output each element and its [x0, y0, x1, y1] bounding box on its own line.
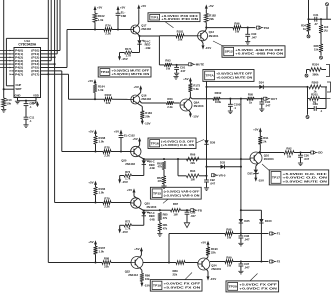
svg-text:1.0k: 1.0k [98, 88, 104, 92]
svg-text:R93: R93 [165, 59, 171, 63]
svg-text:MUTE: MUTE [196, 63, 205, 67]
svg-text:R72: R72 [125, 220, 130, 224]
svg-text:2N4401: 2N4401 [211, 267, 221, 271]
svg-text:10k: 10k [178, 38, 183, 42]
svg-text:+5V: +5V [133, 85, 138, 89]
svg-text:P4(0): P4(0) [15, 49, 23, 53]
svg-text:R365: R365 [312, 81, 319, 85]
svg-text:+5.0(VDC) MUTE ON: +5.0(VDC) MUTE ON [111, 72, 149, 76]
svg-text:+0.0VDC FX ON: +0.0VDC FX ON [239, 286, 277, 290]
svg-text:P4(7): P4(7) [15, 72, 23, 76]
svg-text:P4(5): P4(5) [15, 66, 23, 70]
svg-text:F2: F2 [277, 260, 281, 264]
svg-text:D36: D36 [210, 141, 216, 145]
svg-text:1W: 1W [235, 30, 240, 34]
svg-text:+5V: +5V [141, 4, 146, 8]
svg-text:-15V: -15V [205, 46, 211, 50]
svg-text:TP16: TP16 [151, 141, 160, 145]
svg-text:-14B: -14B [145, 46, 151, 50]
svg-text:F1: F1 [277, 232, 281, 236]
svg-text:2.2k: 2.2k [104, 204, 110, 208]
svg-text:2N4403: 2N4403 [147, 205, 157, 209]
svg-text:R94: R94 [190, 169, 196, 173]
svg-text:CHP: CHP [16, 83, 22, 87]
svg-text:TP7A: TP7A [206, 74, 215, 78]
svg-text:P4(3): P4(3) [15, 59, 23, 63]
svg-text:1.0k: 1.0k [99, 140, 105, 144]
svg-text:R98: R98 [226, 227, 232, 231]
svg-text:-15V: -15V [144, 284, 150, 288]
svg-text:R66: R66 [190, 152, 196, 156]
svg-text:TP15: TP15 [153, 191, 162, 195]
svg-text:1W: 1W [173, 212, 178, 216]
svg-text:1.0k: 1.0k [99, 191, 105, 195]
svg-text:+5V: +5V [88, 79, 93, 83]
svg-text:+5V: +5V [88, 129, 93, 133]
svg-text:+5.0VDC MUTE ON: +5.0VDC MUTE ON [283, 179, 327, 183]
svg-text:VDD: VDD [33, 93, 39, 97]
svg-text:(P17): (P17) [31, 72, 39, 76]
svg-text:+0.0(VDC) MUTE ON: +0.0(VDC) MUTE ON [216, 76, 252, 80]
svg-text:R99: R99 [226, 255, 232, 259]
svg-text:.047: .047 [304, 157, 310, 161]
svg-text:+5V: +5V [127, 188, 132, 192]
svg-text:.047: .047 [190, 214, 196, 218]
svg-text:-15V: -15V [144, 122, 150, 126]
svg-text:C88: C88 [121, 14, 127, 18]
svg-text:R78: R78 [104, 145, 110, 149]
svg-text:R181: R181 [177, 30, 184, 34]
svg-text:(P13): (P13) [31, 59, 39, 63]
svg-text:47k: 47k [158, 165, 163, 169]
svg-text:R74: R74 [105, 23, 111, 27]
svg-text:R201: R201 [311, 92, 318, 96]
svg-text:R38: R38 [314, 44, 319, 48]
svg-text:R87: R87 [173, 202, 179, 206]
svg-text:-15V: -15V [258, 178, 264, 182]
svg-text:2N4403: 2N4403 [141, 97, 151, 101]
svg-text:1.0k: 1.0k [99, 250, 105, 254]
svg-text:TP19: TP19 [153, 283, 162, 287]
svg-text:GND: GND [15, 93, 21, 97]
svg-text:1k0: 1k0 [324, 25, 329, 29]
svg-text:1.0k: 1.0k [98, 18, 104, 22]
svg-text:(P12): (P12) [31, 55, 39, 59]
svg-text:+5V: +5V [97, 6, 102, 10]
svg-text:+5V: +5V [88, 240, 93, 244]
svg-text:(P16): (P16) [31, 69, 39, 73]
svg-text:22k: 22k [173, 273, 178, 277]
svg-text:2.2k: 2.2k [105, 31, 111, 35]
svg-text:+5.0VDC FX ON: +5.0VDC FX ON [164, 285, 201, 289]
svg-text:47k: 47k [163, 227, 168, 231]
svg-text:2N4413: 2N4413 [128, 273, 138, 277]
svg-text:R88: R88 [104, 256, 110, 260]
svg-text:R92: R92 [286, 146, 292, 150]
svg-text:D37: D37 [247, 172, 253, 176]
svg-text:2N4403: 2N4403 [264, 157, 274, 161]
svg-text:R34: R34 [301, 23, 306, 27]
svg-text:+5V: +5V [253, 127, 258, 131]
svg-text:.047: .047 [210, 182, 216, 186]
svg-text:R162: R162 [105, 93, 112, 97]
svg-text:22k: 22k [209, 17, 214, 21]
svg-text:22k: 22k [104, 264, 109, 268]
svg-text:+5.0VDC P40 ON: +5.0VDC P40 ON [161, 17, 198, 21]
svg-text:TP1: TP1 [151, 15, 160, 19]
svg-text:2k: 2k [263, 140, 267, 144]
svg-text:.047: .047 [244, 238, 250, 242]
svg-text:1k: 1k [249, 101, 253, 105]
svg-text:R79: R79 [104, 196, 110, 200]
svg-text:-14B: -14B [149, 217, 155, 221]
svg-text:22k: 22k [211, 251, 216, 255]
svg-text:+5V: +5V [114, 129, 119, 133]
svg-text:-14B: -14B [149, 166, 155, 170]
svg-text:2N4401: 2N4401 [209, 34, 219, 38]
svg-text:1W: 1W [191, 178, 196, 182]
svg-text:R95: R95 [248, 93, 254, 97]
svg-text:-15V: -15V [122, 230, 128, 234]
svg-text:20k: 20k [145, 114, 150, 118]
svg-text:D35: D35 [244, 219, 250, 223]
svg-text:D33: D33 [220, 161, 226, 165]
svg-text:R171: R171 [125, 47, 132, 51]
svg-text:P4(1): P4(1) [15, 52, 23, 56]
svg-text:2.2k: 2.2k [167, 105, 173, 109]
svg-text:P4(6): P4(6) [15, 69, 23, 73]
svg-text:47k: 47k [163, 216, 168, 220]
svg-text:D34: D34 [259, 81, 265, 85]
svg-text:(+5.0VDC) VAR-0 ON: (+5.0VDC) VAR-0 ON [164, 193, 200, 197]
svg-text:2N4403: 2N4403 [125, 162, 135, 166]
svg-text:R96: R96 [234, 21, 240, 25]
svg-text:TP20: TP20 [229, 285, 238, 289]
svg-text:OUT: OUT [271, 97, 278, 101]
svg-text:-15V: -15V [122, 180, 128, 184]
svg-text:.047: .047 [251, 36, 257, 40]
svg-text:380k: 380k [312, 72, 319, 76]
svg-text:+5V: +5V [88, 180, 93, 184]
svg-text:1W: 1W [287, 154, 292, 158]
svg-text:15k: 15k [314, 48, 319, 52]
svg-text:+5V: +5V [120, 6, 125, 10]
svg-text:(+5.0VDC) O.D. ON: (+5.0VDC) O.D. ON [161, 143, 194, 147]
svg-text:100k: 100k [215, 100, 222, 104]
svg-text:+5V: +5V [30, 101, 35, 105]
svg-text:+5V: +5V [208, 4, 213, 8]
svg-text:22k: 22k [106, 101, 111, 105]
svg-text:.47: .47 [314, 22, 318, 26]
svg-text:P4(2): P4(2) [15, 55, 23, 59]
svg-text:+5V: +5V [183, 77, 188, 81]
svg-text:WRT: WRT [16, 87, 22, 91]
svg-text:1W: 1W [166, 67, 171, 71]
svg-text:.047: .047 [244, 266, 250, 270]
svg-text:1W: 1W [227, 235, 232, 239]
svg-text:+5V: +5V [201, 240, 206, 244]
svg-text:47k: 47k [158, 179, 163, 183]
svg-text:P4(4): P4(4) [15, 62, 23, 66]
svg-text:C31: C31 [313, 13, 319, 17]
svg-text:1k: 1k [303, 27, 306, 31]
svg-text:(P15): (P15) [31, 66, 39, 70]
svg-text:TP17: TP17 [272, 176, 281, 180]
svg-text:+0.0VDC -96B P40 ON: +0.0VDC -96B P40 ON [235, 52, 283, 56]
svg-text:R334: R334 [312, 62, 319, 66]
svg-text:TP43: TP43 [101, 70, 110, 74]
svg-text:CY8C9429A: CY8C9429A [18, 43, 37, 47]
svg-text:R63: R63 [167, 97, 173, 101]
svg-text:2N4403: 2N4403 [194, 104, 204, 108]
svg-text:.047: .047 [180, 69, 186, 73]
svg-text:+5V: +5V [134, 247, 139, 251]
svg-text:-15V: -15V [210, 277, 216, 281]
svg-text:10k: 10k [6, 102, 11, 106]
svg-text:SP12: SP12 [225, 50, 234, 54]
svg-text:P43: P43 [264, 26, 270, 30]
svg-text:5.6k: 5.6k [193, 87, 199, 91]
svg-text:-15V: -15V [192, 114, 198, 118]
svg-text:C89: C89 [313, 102, 319, 106]
svg-text:2.2k: 2.2k [104, 153, 110, 157]
svg-text:(A): (A) [324, 29, 328, 33]
svg-text:1W: 1W [227, 263, 232, 267]
svg-text:(P14): (P14) [31, 62, 39, 66]
svg-text:2N4403: 2N4403 [141, 27, 151, 31]
svg-text:(P11): (P11) [31, 52, 39, 56]
svg-text:10k: 10k [145, 277, 150, 281]
svg-text:(P10): (P10) [31, 49, 39, 53]
svg-text:D100: D100 [265, 219, 272, 223]
svg-text:VR-0: VR-0 [219, 173, 226, 177]
svg-text:22k: 22k [190, 161, 195, 165]
svg-text:R80: R80 [163, 213, 168, 217]
svg-text:R202: R202 [215, 91, 222, 95]
svg-text:.047: .047 [265, 104, 271, 108]
svg-text:-15V: -15V [121, 57, 127, 61]
svg-text:+5V: +5V [132, 137, 137, 141]
svg-text:R81: R81 [163, 223, 168, 227]
svg-text:R73: R73 [125, 170, 130, 174]
